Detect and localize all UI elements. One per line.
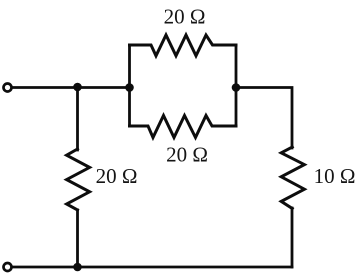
- wire left branch upper: [76, 88, 79, 151]
- resistor 20ohm top of parallel pair: [130, 35, 237, 56]
- node junction dot top-left: [73, 83, 82, 92]
- resistor 20ohm left branch: [67, 149, 90, 210]
- wire right branch lower: [291, 208, 294, 267]
- node junction dot box-right: [232, 83, 241, 92]
- node junction dot box-left: [125, 83, 134, 92]
- terminal input top-left: [4, 84, 12, 92]
- terminal input bottom-left: [4, 263, 12, 271]
- svg-text:20 Ω: 20 Ω: [96, 164, 138, 188]
- svg-text:20 Ω: 20 Ω: [164, 5, 206, 29]
- svg-text:10 Ω: 10 Ω: [314, 164, 356, 188]
- resistor 20ohm bottom of parallel pair: [130, 116, 237, 138]
- svg-text:20 Ω: 20 Ω: [166, 143, 208, 167]
- wire box right vertical: [235, 45, 238, 126]
- wire left branch lower: [76, 210, 79, 267]
- wire top from left terminal to box: [12, 86, 130, 89]
- node junction dot bottom: [73, 263, 82, 272]
- wire bottom return: [12, 266, 293, 269]
- wire from box to right branch: [236, 88, 292, 149]
- resistor 10ohm right branch: [281, 147, 304, 209]
- wire box left vertical: [128, 45, 131, 126]
